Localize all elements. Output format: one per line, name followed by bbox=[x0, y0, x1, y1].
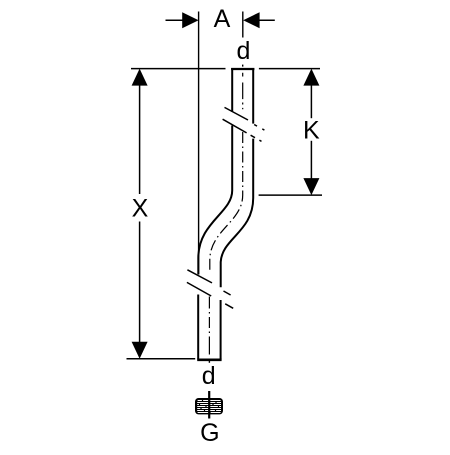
centerline top pipe lower + bend bbox=[210, 132, 243, 271]
pipe right wall lower segment + bend bbox=[221, 139, 254, 288]
pipe left wall upper segment bbox=[231, 68, 233, 112]
centerline bottom pipe bbox=[208, 297, 210, 358]
svg-text:A: A bbox=[214, 5, 231, 33]
threaded nut G bbox=[195, 398, 223, 414]
centerline through nut bbox=[208, 391, 210, 419]
K bottom arrow bbox=[303, 178, 319, 195]
K dimension line bbox=[310, 86, 312, 119]
X top arrow bbox=[132, 69, 148, 86]
centerline top pipe upper bbox=[242, 73, 244, 110]
svg-text:G: G bbox=[200, 419, 219, 447]
centerline above pipe bbox=[242, 65, 244, 67]
pipe left wall lower segment + bend bbox=[198, 126, 232, 275]
top break diagonal 2 bbox=[223, 119, 262, 141]
K bottom reference line bbox=[259, 194, 322, 196]
top reference line y=68.6 bbox=[131, 68, 226, 70]
bottom break diagonal 1 bbox=[187, 270, 230, 295]
pipe right wall bottom segment bbox=[220, 300, 222, 360]
K top arrow bbox=[303, 69, 319, 86]
X bottom reference line bbox=[127, 358, 196, 360]
svg-text:K: K bbox=[303, 117, 320, 145]
bottom break diagonal 2 bbox=[187, 282, 233, 308]
svg-text:d: d bbox=[237, 37, 251, 65]
pipe bottom cap bbox=[197, 358, 221, 361]
pipe left wall bottom segment bbox=[197, 295, 199, 360]
dimension A right arrow bbox=[243, 12, 275, 28]
dimension A left arrow bbox=[166, 12, 199, 28]
X bottom arrow bbox=[132, 342, 148, 359]
svg-text:X: X bbox=[132, 195, 149, 223]
extension line left (A) bbox=[198, 12, 200, 275]
X dimension line bbox=[139, 86, 141, 195]
pipe right wall upper segment bbox=[252, 68, 254, 124]
pipe top cap bbox=[231, 68, 254, 70]
svg-text:d: d bbox=[202, 362, 216, 390]
extension line right (A) bbox=[242, 12, 244, 38]
top break diagonal 1 bbox=[225, 107, 265, 130]
